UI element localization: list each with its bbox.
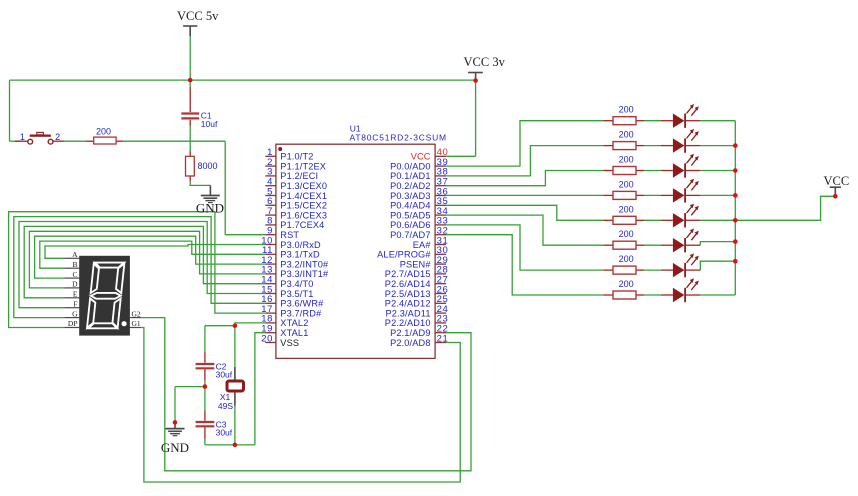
svg-text:P0.1/AD1: P0.1/AD1	[390, 171, 431, 181]
svg-text:P0.7/AD7: P0.7/AD7	[390, 230, 431, 240]
svg-text:P2.4/AD12: P2.4/AD12	[385, 299, 431, 309]
svg-text:30: 30	[437, 245, 449, 256]
svg-text:200: 200	[619, 105, 634, 115]
svg-text:P1.1/T2EX: P1.1/T2EX	[280, 161, 326, 171]
svg-text:P0.5/AD5: P0.5/AD5	[390, 210, 431, 220]
svg-text:P2.5/AD13: P2.5/AD13	[385, 289, 431, 299]
svg-text:200: 200	[96, 126, 111, 136]
svg-text:38: 38	[437, 167, 449, 178]
svg-text:29: 29	[437, 255, 449, 266]
svg-text:30uf: 30uf	[216, 370, 233, 380]
svg-text:36: 36	[437, 186, 449, 197]
svg-text:P3.3/INT1#: P3.3/INT1#	[280, 269, 329, 279]
svg-text:25: 25	[437, 294, 449, 305]
svg-text:200: 200	[619, 179, 634, 189]
svg-text:37: 37	[437, 177, 449, 188]
svg-text:P3.1/TxD: P3.1/TxD	[280, 250, 320, 260]
svg-text:49S: 49S	[218, 401, 233, 411]
svg-text:G1: G1	[132, 319, 141, 328]
svg-text:24: 24	[437, 304, 449, 315]
svg-text:P3.5/T1: P3.5/T1	[280, 289, 313, 299]
svg-text:DP: DP	[68, 319, 78, 328]
svg-text:P2.2/AD10: P2.2/AD10	[385, 318, 431, 328]
svg-text:P1.4/CEX1: P1.4/CEX1	[280, 191, 327, 201]
svg-text:VCC: VCC	[411, 152, 431, 162]
svg-text:B: B	[72, 260, 77, 269]
svg-text:39: 39	[437, 157, 449, 168]
svg-text:35: 35	[437, 196, 449, 207]
svg-text:2: 2	[55, 132, 60, 142]
svg-text:P2.1/AD9: P2.1/AD9	[390, 328, 431, 338]
svg-text:C: C	[72, 270, 77, 279]
svg-text:200: 200	[619, 130, 634, 140]
svg-text:VCC: VCC	[824, 174, 850, 188]
svg-text:31: 31	[437, 235, 449, 246]
svg-text:P2.3/AD11: P2.3/AD11	[385, 308, 430, 318]
svg-text:P0.4/AD4: P0.4/AD4	[390, 201, 431, 211]
svg-text:EA#: EA#	[413, 240, 432, 250]
svg-text:200: 200	[619, 204, 634, 214]
svg-text:P1.3/CEX0: P1.3/CEX0	[280, 181, 327, 191]
svg-text:28: 28	[437, 265, 449, 276]
svg-text:10uf: 10uf	[201, 119, 218, 129]
svg-text:E: E	[73, 290, 78, 299]
svg-text:20: 20	[261, 333, 273, 344]
svg-text:22: 22	[437, 324, 449, 335]
svg-text:D: D	[72, 280, 78, 289]
svg-text:ALE/PROG#: ALE/PROG#	[377, 250, 431, 260]
svg-text:30uf: 30uf	[216, 428, 233, 438]
svg-text:P3.4/T0: P3.4/T0	[280, 279, 313, 289]
svg-text:33: 33	[437, 216, 449, 227]
svg-text:RST: RST	[280, 230, 299, 240]
svg-text:G2: G2	[132, 309, 141, 318]
svg-text:GND: GND	[196, 201, 224, 216]
svg-text:F: F	[73, 299, 77, 308]
svg-text:21: 21	[437, 333, 449, 344]
svg-text:P2.6/AD14: P2.6/AD14	[385, 279, 431, 289]
svg-text:P1.7CEX4: P1.7CEX4	[280, 220, 324, 230]
svg-text:AT80C51RD2-3CSUM: AT80C51RD2-3CSUM	[350, 133, 447, 143]
svg-text:40: 40	[437, 147, 449, 158]
svg-text:P2.0/AD8: P2.0/AD8	[390, 338, 431, 348]
svg-text:XTAL1: XTAL1	[280, 328, 308, 338]
svg-text:P3.6/WR#: P3.6/WR#	[280, 299, 324, 309]
svg-text:GND: GND	[161, 440, 189, 455]
svg-text:VSS: VSS	[280, 338, 299, 348]
svg-text:A: A	[72, 250, 78, 259]
svg-text:P0.0/AD0: P0.0/AD0	[390, 161, 431, 171]
svg-text:26: 26	[437, 284, 449, 295]
svg-text:P0.3/AD3: P0.3/AD3	[390, 191, 431, 201]
svg-text:P1.2/ECI: P1.2/ECI	[280, 171, 318, 181]
svg-text:27: 27	[437, 275, 449, 286]
svg-text:VCC 5v: VCC 5v	[177, 9, 219, 23]
svg-text:P1.6/CEX3: P1.6/CEX3	[280, 210, 327, 220]
svg-text:VCC 3v: VCC 3v	[464, 55, 506, 69]
svg-text:G: G	[72, 309, 78, 318]
svg-text:200: 200	[619, 155, 634, 165]
svg-text:200: 200	[619, 279, 634, 289]
svg-text:XTAL2: XTAL2	[280, 318, 308, 328]
svg-text:P1.0/T2: P1.0/T2	[280, 152, 313, 162]
svg-text:32: 32	[437, 226, 449, 237]
svg-text:P0.2/AD2: P0.2/AD2	[390, 181, 431, 191]
svg-text:P3.2/INT0#: P3.2/INT0#	[280, 259, 329, 269]
svg-text:P2.7/AD15: P2.7/AD15	[385, 269, 431, 279]
svg-text:P3.0/RxD: P3.0/RxD	[280, 240, 321, 250]
svg-text:P3.7/RD#: P3.7/RD#	[280, 308, 322, 318]
svg-text:200: 200	[619, 229, 634, 239]
svg-text:23: 23	[437, 314, 449, 325]
svg-text:200: 200	[619, 254, 634, 264]
svg-text:34: 34	[437, 206, 449, 217]
svg-text:1: 1	[20, 132, 25, 142]
svg-text:PSEN#: PSEN#	[400, 259, 432, 269]
svg-text:P1.5/CEX2: P1.5/CEX2	[280, 201, 327, 211]
svg-text:8000: 8000	[198, 161, 218, 171]
svg-text:P0.6/AD6: P0.6/AD6	[390, 220, 431, 230]
